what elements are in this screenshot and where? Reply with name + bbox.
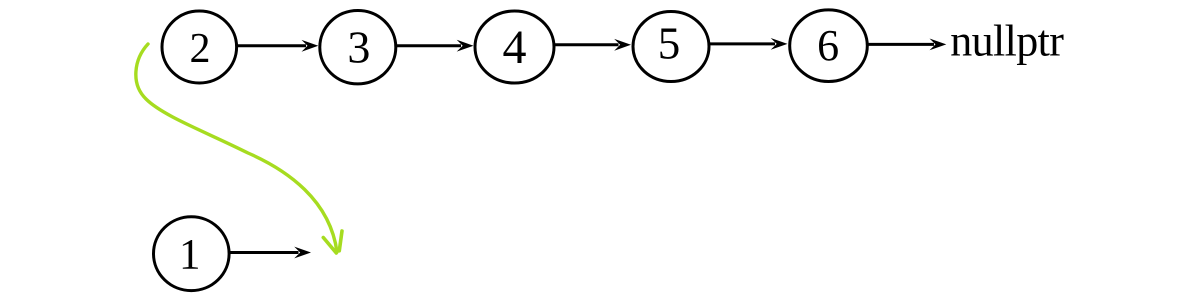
node 1 [154, 217, 230, 291]
svg-text:5: 5 [658, 19, 681, 69]
node 6 [790, 10, 868, 82]
arrow 2->3 [237, 40, 318, 52]
nullptr label [950, 17, 1064, 66]
arrow 4->5 [554, 39, 631, 51]
node 4 [475, 11, 554, 83]
svg-text:4: 4 [503, 21, 527, 74]
svg-text:3: 3 [347, 22, 370, 73]
node 2 [162, 11, 237, 83]
svg-text:1: 1 [179, 232, 201, 279]
arrow 5->6 [709, 38, 788, 50]
green pointer arrow (node 2 -> position before node 1's next) [136, 44, 342, 253]
node 3 [320, 11, 396, 84]
svg-text:nullptr: nullptr [950, 17, 1064, 66]
node 5 [633, 12, 709, 82]
arrow 3->4 [396, 40, 474, 52]
svg-text:2: 2 [190, 26, 211, 72]
svg-text:6: 6 [817, 21, 839, 70]
arrow 6->nullptr [867, 39, 946, 51]
arrow from node 1 [230, 247, 312, 259]
